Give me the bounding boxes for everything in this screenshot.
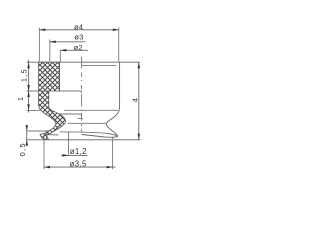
svg-text:ø2: ø2 [74,43,83,52]
svg-text:1,5: 1,5 [20,68,29,82]
svg-text:4: 4 [130,98,139,102]
svg-text:ø4: ø4 [74,22,83,31]
svg-text:1: 1 [16,97,25,101]
svg-text:ø3: ø3 [74,33,83,42]
svg-text:ø3,5: ø3,5 [69,159,86,168]
svg-text:ø1,2: ø1,2 [70,147,87,156]
svg-text:0,5: 0,5 [18,142,27,156]
